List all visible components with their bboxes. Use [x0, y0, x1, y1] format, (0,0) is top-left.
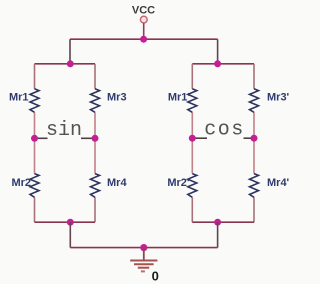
svg-text:0: 0 — [152, 269, 159, 284]
wire left bridge bottom — [35, 221, 96, 223]
wire right drop — [217, 39, 219, 64]
ground — [130, 248, 159, 284]
wire left drop — [69, 39, 71, 64]
VCC power symbol — [132, 5, 155, 24]
resistor Mr1' — [168, 89, 197, 113]
svg-text:Mr1: Mr1 — [9, 92, 29, 104]
wire top rail — [70, 38, 218, 40]
svg-text:cos: cos — [204, 119, 245, 142]
wire right bridge top — [192, 63, 254, 65]
svg-text:Mr3': Mr3' — [267, 92, 290, 104]
wire right bridge left column — [191, 64, 193, 222]
node sin- with stub — [31, 135, 48, 142]
svg-text:Mr2': Mr2' — [167, 177, 190, 189]
node sin+ with stub — [81, 135, 99, 142]
resistor Mr4' — [250, 174, 290, 198]
wire left bridge right column — [94, 64, 96, 222]
svg-text:Mr2: Mr2 — [11, 177, 31, 189]
wire right bridge bottom — [192, 221, 254, 223]
svg-text:Mr1': Mr1' — [168, 92, 191, 104]
node VCC rail junction — [140, 36, 147, 43]
wire left bottom drop — [69, 222, 71, 247]
resistor Mr4 — [91, 174, 128, 198]
node cos+ with stub — [244, 135, 258, 142]
wire right bridge right column — [253, 64, 255, 222]
wire VCC stub — [143, 23, 145, 39]
resistor Mr2 — [11, 174, 39, 198]
svg-text:Mr4: Mr4 — [107, 177, 127, 189]
label sin — [46, 119, 82, 142]
node cos- with stub — [189, 135, 207, 142]
node right bridge top junction — [214, 60, 221, 67]
wire left bridge left column — [34, 64, 36, 222]
svg-text:VCC: VCC — [132, 5, 155, 17]
resistor Mr1 — [9, 89, 39, 113]
node left bridge bottom junction — [67, 219, 74, 226]
svg-text:Mr3: Mr3 — [107, 92, 127, 104]
svg-text:sin: sin — [46, 119, 82, 142]
node left bridge top junction — [67, 60, 74, 67]
svg-text:Mr4': Mr4' — [267, 177, 290, 189]
label cos — [204, 119, 245, 142]
wire bottom rail — [70, 247, 217, 249]
resistor Mr2' — [167, 174, 196, 198]
resistor Mr3 — [91, 89, 127, 113]
node ground junction — [140, 244, 147, 251]
wire right bottom drop — [217, 222, 219, 247]
resistor Mr3' — [250, 89, 290, 113]
wire left bridge top — [35, 63, 96, 65]
node right bridge bottom junction — [214, 219, 221, 226]
